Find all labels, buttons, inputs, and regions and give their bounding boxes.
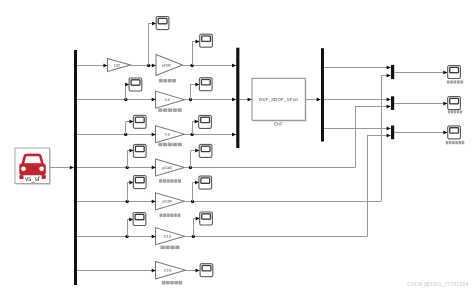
scope output 质心侧偏角3 xyxy=(199,144,212,157)
wire demux to gain 纵向加速度 xyxy=(77,99,156,101)
junction before gain 纵向加速度 xyxy=(124,98,127,101)
wire mux2 to scope sideslip xyxy=(394,103,447,105)
output demux 3 estimated states xyxy=(321,48,324,141)
junction before gain 纵向车速 xyxy=(125,235,128,238)
svg-text:1/3.6: 1/3.6 xyxy=(163,235,171,239)
svg-text:9.8: 9.8 xyxy=(165,98,170,102)
wire estimated vx to mux3 xyxy=(324,128,390,130)
mux2 sideslip compare xyxy=(391,96,394,110)
svg-text:1/3.6: 1/3.6 xyxy=(164,269,172,273)
gain pi/180 横摆角速度3 xyxy=(156,193,185,210)
label 纵向车速对比 xyxy=(446,141,465,144)
scope vx compare xyxy=(448,126,461,139)
wire xyxy=(149,23,156,25)
vehicle block vs_sf (CarSim S-Function) xyxy=(15,148,51,185)
wire mux to EKF block xyxy=(239,99,251,101)
scope front wheel angle rad xyxy=(200,34,213,47)
junction row1 steering deg xyxy=(147,64,150,67)
label 横摆角速度3 xyxy=(160,214,181,218)
wire xyxy=(127,150,133,152)
gain 1/3.6 纵向车速 xyxy=(156,228,185,245)
wire demux out7 to gain 1/3.6 xyxy=(77,270,156,272)
label 横向车速w xyxy=(162,281,183,285)
wire row1 to input mux xyxy=(183,65,236,67)
wire mux1 to scope yaw rate xyxy=(394,72,447,74)
scope yaw rate compare xyxy=(448,66,461,79)
wire up to output scope 质心侧偏角3 xyxy=(190,151,192,168)
wire up to input scope 质心侧偏角3 xyxy=(127,151,129,168)
wire row5 true yaw rate riser to mux1 xyxy=(382,76,391,202)
label 横摆角速度 xyxy=(447,80,463,83)
wire up to output scope 纵向车速 xyxy=(193,219,195,237)
svg-text:vs_sf: vs_sf xyxy=(25,176,40,183)
wire after gain 纵向车速 xyxy=(185,236,368,238)
wire demux to gain 纵向车速 xyxy=(77,236,156,238)
scope input 纵向加速度 xyxy=(129,78,142,91)
scope lateral speed xyxy=(200,264,213,277)
gain 9.8 纵向加速度 xyxy=(156,91,185,108)
wire up to output scope 横摆角速度3 xyxy=(192,183,194,202)
wire up to input scope 纵向加速度 xyxy=(125,85,127,100)
junction after gain 纵向加速度 xyxy=(189,98,192,101)
wire estimated sideslip to mux2 xyxy=(324,99,390,101)
wire gain to scope lateral speed xyxy=(186,270,200,272)
junction before gain 横摆角速度3 xyxy=(126,200,129,203)
wire after gain 质心侧偏角3 xyxy=(185,167,356,169)
wire xyxy=(193,182,199,184)
scope input 纵向车速 xyxy=(133,213,146,226)
junction after gain 纵向车速 xyxy=(192,235,195,238)
gain 1/22 steering ratio xyxy=(108,59,131,72)
junction before gain 横向加速度 xyxy=(124,133,127,136)
scope input 横向加速度 xyxy=(133,115,146,128)
junction row1 after gain xyxy=(190,64,193,67)
junction after gain 横向加速度 xyxy=(191,133,194,136)
wire xyxy=(126,84,129,86)
wire up to scope steering deg xyxy=(148,23,150,65)
svg-text:9.8: 9.8 xyxy=(165,133,170,137)
scope input 横摆角速度3 xyxy=(133,176,146,189)
wire up to scope front wheel angle xyxy=(192,41,194,65)
gain pi/180 front wheel angle xyxy=(156,55,183,76)
svg-text:pi/180: pi/180 xyxy=(162,63,171,67)
scope output 纵向车速 xyxy=(200,212,213,225)
svg-text:pi/180: pi/180 xyxy=(162,200,172,204)
svg-text:1/22: 1/22 xyxy=(114,63,121,67)
scope steering angle deg xyxy=(156,17,169,30)
wire xyxy=(127,219,133,221)
wire row4 true sideslip riser to mux2 xyxy=(356,107,391,168)
svg-text:EKF: EKF xyxy=(274,122,283,127)
wire xyxy=(127,182,133,184)
junction after gain 横摆角速度3 xyxy=(191,200,194,203)
mux3 vx compare xyxy=(391,126,394,140)
scope output 纵向加速度 xyxy=(199,78,212,91)
wire mux3 to scope vx xyxy=(394,132,447,134)
label 质心侧偏角 xyxy=(448,110,462,113)
scope sideslip compare xyxy=(448,97,461,110)
svg-text:pi/180: pi/180 xyxy=(162,166,172,170)
input mux 3 measurements xyxy=(236,48,239,148)
junction before gain 质心侧偏角3 xyxy=(126,166,129,169)
wire demux to gain 质心侧偏角3 xyxy=(77,167,156,169)
wire xyxy=(126,121,133,123)
label 横向加速度 xyxy=(158,143,182,147)
wire demux out1 to gain 1/22 xyxy=(77,65,107,67)
svg-text:EKF_3DOF_SFun: EKF_3DOF_SFun xyxy=(259,97,298,103)
gain 9.8 横向加速度 xyxy=(156,126,185,143)
wire up to output scope 纵向加速度 xyxy=(190,84,192,100)
scope output 横向加速度 xyxy=(199,115,212,128)
scope output 横摆角速度3 xyxy=(199,176,212,189)
wire up to input scope 纵向车速 xyxy=(127,219,129,236)
wire after gain 横向加速度 xyxy=(185,134,236,136)
wire EKF to output demux xyxy=(305,99,320,101)
scope input 质心侧偏角3 xyxy=(133,144,146,157)
gain pi/180 质心侧偏角3 xyxy=(156,159,185,176)
wire demux to gain 横摆角速度3 xyxy=(77,201,156,203)
label 纵向车速 xyxy=(161,246,180,250)
wire xyxy=(192,121,198,123)
label 前轮转角 xyxy=(159,79,176,83)
left demux bar of vehicle signals xyxy=(74,50,77,285)
EKF_3DOF_SFun S-function block xyxy=(252,78,307,122)
wire up to output scope 横向加速度 xyxy=(192,122,194,134)
wire xyxy=(193,218,199,220)
wire after gain 纵向加速度 xyxy=(185,99,236,101)
wire gain 1/22 to gain pi/180 xyxy=(131,65,156,67)
wire car output to demux xyxy=(50,167,74,169)
label 质心侧偏角3 xyxy=(159,179,181,183)
wire up to input scope 横摆角速度3 xyxy=(127,182,129,201)
junction after gain 质心侧偏角3 xyxy=(189,166,192,169)
wire xyxy=(191,84,200,86)
wire xyxy=(190,150,198,152)
wire estimated yaw rate to mux1 xyxy=(324,67,390,69)
wire up to input scope 横向加速度 xyxy=(125,122,127,134)
wire after gain 横摆角速度3 xyxy=(185,201,382,203)
svg-text:CSDN @2301_77732284: CSDN @2301_77732284 xyxy=(407,282,468,288)
label 纵向加速度 xyxy=(158,108,182,112)
wire xyxy=(192,41,199,43)
mux1 yaw rate compare xyxy=(391,65,394,79)
wire demux to gain 横向加速度 xyxy=(77,134,156,136)
wire row6 true vx riser to mux3 xyxy=(368,136,391,237)
gain 1/3.6 lateral speed xyxy=(156,262,186,279)
